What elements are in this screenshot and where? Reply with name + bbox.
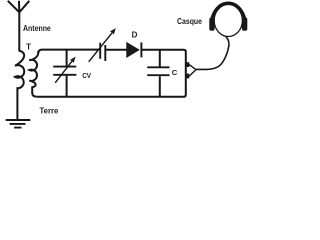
C bottom stem	[159, 76, 161, 96]
variable capacitor CV: top stem	[66, 50, 68, 65]
jack terminal nub bottom	[186, 74, 189, 79]
svg-text:CV: CV	[82, 73, 91, 80]
svg-text:Casque: Casque	[177, 17, 202, 26]
head circle	[214, 5, 242, 37]
capacitor C: top stem	[159, 50, 161, 66]
antenna	[8, 1, 30, 52]
wire: top wire right segment, right edge down to bottom wire	[36, 50, 186, 97]
svg-text:T: T	[26, 42, 31, 51]
svg-text:Terre: Terre	[40, 107, 59, 116]
svg-text:D: D	[132, 30, 138, 39]
CV plates	[53, 67, 76, 75]
CV arrow	[55, 57, 75, 83]
headphone band	[211, 3, 245, 25]
wire: top wire left segment with corner from secondary	[38, 50, 99, 53]
variable capacitor (series, on top wire): plates	[100, 43, 105, 61]
jack terminal nub top	[186, 62, 189, 67]
wire: top wire between series cap and diode	[105, 49, 127, 51]
svg-text:C: C	[172, 68, 178, 77]
C plates	[147, 67, 169, 75]
diode D triangle	[127, 43, 139, 57]
CV bottom stem	[66, 76, 68, 97]
transformer T primary winding	[15, 51, 24, 120]
headphone left earpiece	[209, 18, 214, 31]
svg-text:Antenne: Antenne	[23, 24, 51, 33]
headphone right earpiece	[242, 18, 247, 31]
variable capacitor arrow	[89, 28, 116, 62]
jack chevron wires	[189, 64, 196, 76]
diode D cathode bar	[140, 42, 142, 57]
headphone cable	[196, 36, 229, 69]
ground (Terre) symbol	[6, 120, 31, 128]
transformer T secondary winding	[29, 51, 38, 97]
